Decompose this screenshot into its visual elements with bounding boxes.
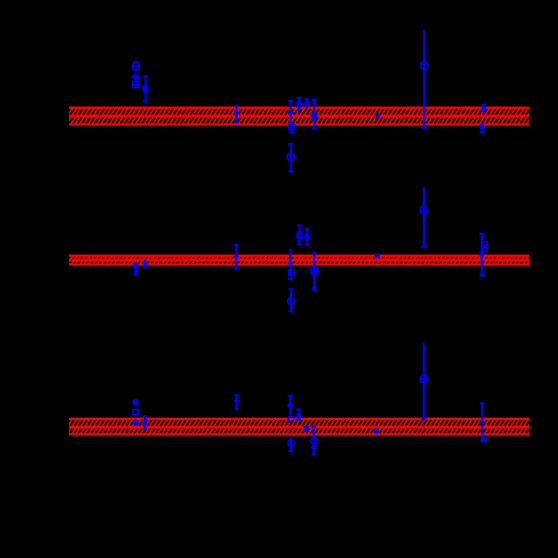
point P2-H open square below band <box>289 270 294 275</box>
band panel2 (red hatched uncertainty band) <box>62 255 538 266</box>
point P1-L3 open square marker <box>133 82 139 88</box>
band panel1 (red hatched uncertainty band) <box>57 107 542 126</box>
point P3-N filled diamond below band with error bar <box>480 403 488 442</box>
point P3-E triangle-down with error bar <box>234 395 240 409</box>
point P2-A filled square with stub <box>133 263 139 276</box>
point P1-I filled square in band <box>375 113 380 118</box>
point P3-H open circle below band <box>288 437 294 451</box>
point P2-D open square-line marker with error bar <box>296 225 303 244</box>
point P1-B filled diamond with error bar <box>234 106 240 123</box>
point P3-L filled circle in band <box>374 428 380 434</box>
point P1-J open circle with long error bar <box>420 30 428 127</box>
point P1-C filled diamond with error bar <box>287 101 294 121</box>
point P1-L filled circle below band <box>479 123 485 132</box>
point P1-K filled marker at band top <box>481 105 488 114</box>
point P3-B open square <box>133 409 138 414</box>
point P1-E small open marker with error bar <box>296 98 302 113</box>
point P3-D asterisk with error bar <box>143 416 148 429</box>
point P1-L2 asterisk marker with cap <box>131 73 140 80</box>
point P2-B filled triangle-up <box>142 260 148 269</box>
point P2-F filled square at band top <box>375 253 380 258</box>
point P3-I filled square with error bar <box>296 409 301 419</box>
point P2-K open circle with long error bar <box>420 187 428 247</box>
band panel3 (red hatched uncertainty band) <box>58 418 542 436</box>
point P3-M open circle with long error bar <box>420 343 428 419</box>
point P2-L filled square with error bar <box>479 234 484 276</box>
point P1-D2 open circle below band with error bar <box>287 144 294 172</box>
point P3-G open square at band top <box>288 416 293 421</box>
point P1-G small tick marker <box>312 100 317 129</box>
point P3-A filled circle <box>132 399 139 406</box>
point P3-C filled circle at band edge <box>132 419 138 425</box>
point P1-L1 open theta marker <box>133 62 139 70</box>
point P2-I open circle with side ticks and error bar <box>310 253 319 291</box>
label tiny glyphs right of P2-L <box>483 242 487 252</box>
point P2-E filled square-plus marker with error bar <box>304 229 312 244</box>
point P1-D open square with error bar <box>289 122 294 133</box>
point P1-H big filled circle <box>310 112 317 119</box>
point P2-J open circle with error bar <box>288 289 295 311</box>
point P3-K open circle and filled diamond shared bar <box>311 427 317 455</box>
point P3-F filled diamond with error bar <box>287 396 294 415</box>
point P3-J asterisk in band <box>304 425 309 432</box>
point P2-C filled diamond with error bar <box>234 245 240 269</box>
point P1-F marker with side ticks and error bar <box>303 99 311 109</box>
point P2-G filled square in band <box>288 250 293 279</box>
point P1-A filled circle with error bar <box>142 76 149 101</box>
